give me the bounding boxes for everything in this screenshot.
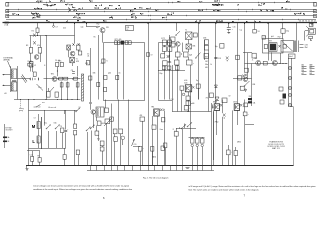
junction dots ground bus [19, 98, 22, 101]
svg-text:+: + [193, 63, 194, 65]
component mid [262, 36, 265, 40]
output transformer T3 [281, 41, 299, 53]
svg-text:C20: C20 [134, 144, 137, 146]
chassis earth rail [26, 165, 294, 167]
capacitor C8 [66, 83, 69, 87]
resistor R6 [76, 83, 79, 87]
wire x293.5 long down [293, 107, 295, 166]
transistor TR2 1st IF [100, 28, 105, 33]
cap on x216 [214, 57, 217, 59]
switch diag [245, 81, 250, 86]
diode D1 on bus [33, 34, 36, 37]
svg-text:698: 698 [253, 84, 256, 86]
svg-text:C18: C18 [218, 58, 221, 60]
electrolytic C21 [234, 151, 238, 156]
svg-text:R9: R9 [37, 156, 39, 158]
horizontal wire y148 [29, 148, 66, 150]
svg-text:TR1: TR1 [51, 74, 55, 76]
switch S1c [76, 111, 77, 112]
supply rail bus 1 [6, 2, 316, 4]
cluster above gang [28, 63, 32, 66]
wire jack join [290, 106, 294, 108]
svg-text:10Vm: 10Vm [233, 102, 238, 104]
svg-text:1k: 1k [210, 64, 212, 66]
resistor R4 on bus [64, 77, 68, 80]
capacitor C1 trimmer [30, 78, 32, 81]
svg-text:20: 20 [299, 21, 301, 23]
box on x237.5 mid [236, 55, 240, 59]
x mark [245, 74, 247, 76]
svg-text:C16: C16 [233, 27, 236, 29]
screen box 2 top edge [159, 42, 173, 44]
wire TR2 emitter down [102, 33, 104, 43]
supply rail bus 3 [6, 11, 316, 13]
jack mid boxes [279, 87, 283, 91]
resistor R1 [33, 72, 36, 76]
right stacked boxes [204, 40, 208, 45]
resistor R9 bottom left [38, 158, 41, 163]
output module box [263, 39, 284, 54]
wire x247.7 [247, 53, 249, 79]
boxes row y75 on IF verticals [104, 76, 107, 80]
box on x164 mid [162, 118, 165, 122]
svg-text:894: 894 [302, 70, 305, 72]
osc box with X [67, 45, 71, 50]
transformer label box [289, 54, 296, 59]
svg-text:10p: 10p [215, 46, 218, 48]
IF transformer IFT1 row on screen top [115, 41, 118, 45]
ground below [244, 89, 247, 91]
secondary earth line [87, 170, 214, 172]
svg-text:335: 335 [93, 73, 96, 75]
plus box below [240, 86, 244, 90]
small box far right [244, 103, 248, 107]
L coil winding [37, 136, 40, 143]
speaker tag box small [309, 24, 313, 27]
TR1 bias chain left boxes [30, 36, 32, 48]
bias resistor R23 [281, 29, 285, 33]
svg-text:L2: L2 [34, 65, 36, 67]
box x176 [174, 132, 178, 137]
label box IF [126, 26, 134, 31]
small box right of T2 [193, 33, 197, 37]
interstage transformer T2 xbox [186, 32, 193, 40]
output transistor TR5 round [272, 61, 277, 66]
small box on x98 [97, 83, 100, 87]
earth symbol right end [311, 23, 314, 25]
svg-text:S1: S1 [79, 107, 81, 109]
module internal box [264, 45, 267, 49]
output transistor TR4 round [256, 61, 261, 66]
svg-text:2.3: 2.3 [264, 37, 266, 39]
x mark 2 [78, 43, 80, 46]
switch legend text block lower [302, 63, 315, 74]
wave change switch S1a [46, 128, 47, 129]
box right of TR3 [196, 84, 200, 88]
svg-text:00m: 00m [58, 61, 62, 63]
junction [57, 70, 58, 71]
svg-text:k7: k7 [314, 21, 316, 23]
driver transistor TR7 dark square [269, 43, 277, 52]
electrolytic C16 with earth [228, 23, 230, 28]
box below TR4 [152, 125, 156, 129]
svg-text:kp3: kp3 [271, 36, 274, 38]
AF wires [152, 116, 154, 125]
IFT2 verticals [164, 45, 166, 46]
fuse FS1 2.5A on HT rail [5, 22, 9, 24]
svg-text:412: 412 [63, 28, 66, 30]
IF transformer IFT2 [162, 40, 166, 45]
svg-text:6V4: 6V4 [102, 123, 105, 125]
transistor TR_d circle [243, 77, 247, 81]
rail tick marks [19, 2, 299, 20]
coil can small dark [29, 62, 33, 68]
junction dots y103 [89, 103, 90, 104]
screening can hatched bar [82, 74, 84, 101]
wire x237.5 from HT [237, 23, 239, 104]
box on x78 low [76, 150, 79, 155]
M coil winding [37, 122, 40, 129]
terminal tag 2 right [314, 10, 317, 13]
x mark right of TR4 [160, 109, 162, 112]
box bottom segment [27, 150, 40, 152]
svg-text:TR2: TR2 [96, 24, 99, 26]
driver transistor TR5 square [214, 104, 219, 111]
wire y128 [176, 128, 196, 130]
svg-text:Fig. 2. The full circuit diag: Fig. 2. The full circuit diagram [143, 176, 169, 179]
dark boxes left x249 [248, 98, 252, 100]
x mark in module [279, 45, 281, 47]
driver low verticals [213, 110, 215, 165]
svg-text:353: 353 [249, 96, 252, 98]
wire from HT x74.5 [74, 23, 76, 36]
marks left [212, 105, 214, 109]
transistor TR3 circle [176, 42, 181, 47]
box on x254.5 [253, 30, 256, 34]
svg-text:C9: C9 [60, 126, 62, 128]
svg-text:0p8: 0p8 [189, 55, 192, 57]
svg-text:C3: C3 [34, 118, 36, 120]
capacitor C12 bottom left [31, 157, 34, 162]
osc box right [76, 45, 80, 50]
svg-text:58: 58 [302, 21, 304, 23]
svg-text:376: 376 [106, 27, 109, 29]
svg-text:R3: R3 [26, 45, 28, 47]
wires module to bus [271, 52, 273, 61]
svg-text:TR4: TR4 [254, 58, 257, 60]
bottom boxes det [175, 60, 180, 65]
small cap C8a [72, 71, 75, 73]
svg-text:69k: 69k [193, 46, 196, 48]
x mark 1 [72, 43, 74, 46]
wire top h y27 [87, 26, 97, 28]
coil former L2 [47, 92, 51, 98]
chassis label text right end of HT rail [299, 21, 316, 23]
resistor R15 [171, 43, 175, 47]
wire y70 horizontal [158, 70, 185, 72]
svg-text:MAT 121: MAT 121 [272, 147, 280, 150]
junction dots chassis rail [28, 165, 29, 166]
diode triangle lower [215, 97, 219, 100]
earth symbol mid [186, 167, 190, 169]
x marks right of TR3 [192, 86, 194, 88]
terminal A [3, 137, 7, 139]
svg-text:TR7: TR7 [269, 41, 272, 43]
wires to chassis left [32, 151, 34, 157]
svg-text:p40: p40 [108, 73, 111, 75]
horizontal wire y110 [29, 110, 78, 112]
svg-text:R2: R2 [32, 31, 34, 33]
box below TR3 [186, 96, 190, 100]
svg-text:conditions at the aerial input: conditions at the aerial input. Where tw… [33, 188, 133, 191]
output transistor TR6 square [234, 104, 239, 111]
svg-text:T2: T2 [185, 30, 187, 32]
aerial socket terminals [3, 74, 6, 76]
volume arrow [132, 139, 135, 146]
svg-text:48V0: 48V0 [237, 142, 241, 144]
earphone jack ladder [288, 58, 291, 107]
vertical x209 from detector [208, 50, 210, 112]
terminal E [3, 141, 7, 143]
coil box with windings [96, 107, 104, 117]
terminal tag 3 right [314, 14, 317, 17]
svg-text:5.p: 5.p [240, 30, 242, 32]
osc vertical wires [46, 36, 48, 100]
vertical x111.5 [111, 104, 113, 166]
svg-text:631: 631 [127, 27, 130, 29]
gang arrow [37, 84, 44, 91]
osc small box [78, 51, 81, 55]
ticks between rails [91, 166, 212, 171]
wire y52.8 right [243, 52, 252, 54]
osc transistor circle [70, 51, 75, 56]
svg-text:74k: 74k [302, 67, 305, 69]
resistor R28 [140, 117, 145, 121]
svg-text:47k: 47k [310, 70, 313, 72]
capacitor C7 on bus [74, 77, 78, 80]
transformer values text [300, 44, 309, 49]
wire x216 from HT down to driver [215, 23, 217, 104]
svg-text:SOCKET: SOCKET [6, 130, 14, 132]
test point symbol [53, 23, 55, 26]
svg-text:C8: C8 [71, 70, 73, 72]
wave change switch S1b [55, 128, 56, 129]
vertical x176 [176, 128, 178, 132]
svg-text:069: 069 [205, 67, 208, 69]
svg-text:+: + [143, 148, 144, 150]
diode mark [242, 75, 245, 78]
terminal tag 1 right [314, 3, 317, 7]
svg-text:in M range and V (k--A.C.) ran: in M range and V (k--A.C.) range. Noise … [189, 185, 316, 188]
second bias box [38, 48, 41, 54]
svg-text:410: 410 [101, 63, 104, 65]
small box on x90 lower [89, 76, 92, 80]
box on x164 low [161, 146, 164, 150]
svg-text:12: 12 [127, 29, 129, 31]
box on x211 pair [210, 93, 214, 98]
box on x111.5 [110, 117, 114, 121]
svg-text:p57: p57 [302, 73, 305, 75]
det cluster wires [182, 43, 184, 52]
svg-text:IFT1 465: IFT1 465 [115, 39, 122, 41]
box right lower [204, 54, 209, 59]
det vertical x190.5 upper [190, 65, 192, 100]
electrolytic C20b [227, 150, 231, 155]
screen box IF stage 1 [104, 43, 145, 101]
svg-text:775: 775 [206, 98, 209, 100]
circle below left [182, 93, 185, 96]
lower cluster x113-126 [113, 129, 117, 134]
diode on x216 [214, 85, 217, 88]
bus wire y35.5 [30, 35, 75, 37]
small box on x148 [146, 53, 149, 56]
svg-text:.01: .01 [87, 56, 89, 58]
resistor R5 [60, 83, 63, 87]
note text block (transistor line-up) [267, 141, 285, 151]
vertical x90.2 [90, 48, 92, 100]
svg-text:76: 76 [305, 21, 307, 23]
lower boxes detector [176, 52, 181, 57]
wires mid low [90, 100, 92, 110]
svg-text:m0p: m0p [286, 31, 289, 33]
svg-text:1pk4: 1pk4 [289, 56, 293, 58]
svg-text:L4 osc coil: L4 osc coil [48, 107, 57, 109]
svg-text:91p: 91p [160, 73, 163, 75]
box x95 [95, 131, 99, 135]
left antenna terminal block [4, 124, 6, 148]
resistor R14 [171, 37, 175, 42]
capacitor pair C6 [56, 62, 59, 66]
supply rail bus 2 [6, 9, 316, 11]
box right of diode [222, 98, 227, 103]
diode D3 cluster [226, 57, 229, 60]
svg-text:47k: 47k [37, 45, 40, 47]
long vertical x244.5 [244, 23, 246, 69]
oscillator cluster right [74, 36, 76, 44]
electrolytic below cluster [184, 106, 188, 110]
supply rail bus 4 [6, 15, 316, 17]
ground bus wire y99.5 [14, 99, 81, 101]
svg-text:osc: osc [42, 102, 45, 104]
AF preamp transistor TR3 square [185, 85, 191, 92]
svg-text:k68: k68 [310, 73, 313, 75]
coil former L3 [55, 92, 58, 97]
loudspeaker LS1 [306, 26, 315, 36]
svg-text:Circuit voltages are shown; po: Circuit voltages are shown; points in-be… [33, 184, 129, 187]
svg-text:R5: R5 [94, 37, 96, 39]
horizontal y125 [245, 124, 254, 126]
capacitor C2 [38, 78, 40, 81]
resistor R10 bottom [63, 155, 66, 160]
svg-text:12p: 12p [81, 27, 84, 29]
terminal tag 1 left [6, 3, 9, 7]
plus box right [243, 112, 247, 116]
wire left vertical from gang [28, 100, 30, 166]
capacitor C10 [64, 130, 67, 132]
M/L verticals [44, 110, 46, 126]
long vertical x148 [148, 23, 150, 166]
wire x268 from HT to output bus [268, 23, 270, 61]
IFT2 small boxes lower [162, 66, 166, 70]
svg-text:01: 01 [119, 73, 121, 75]
AF transistor TR4 square [154, 109, 159, 116]
box under arrow [105, 119, 110, 124]
svg-text:C14: C14 [171, 99, 174, 101]
x mark right [220, 104, 222, 106]
vertical x188 seg [188, 106, 190, 112]
svg-text:gang: gang [19, 110, 23, 112]
box right edge [252, 53, 256, 58]
osc transformer T2 [70, 57, 75, 63]
bias verticals [30, 53, 32, 62]
wires M/L [38, 114, 40, 122]
svg-text:M: M [32, 124, 36, 129]
switch diagonal [176, 31, 180, 35]
svg-text:find. The switch units are rea: find. The switch units are readers and s… [189, 188, 260, 191]
ferrite rod line [41, 117, 43, 149]
small box x103 on screen edge [102, 59, 105, 63]
output bus y63.5 [245, 63, 288, 65]
wire transformer to HT [296, 23, 298, 41]
tuned circuit wire down [17, 66, 19, 100]
svg-text:53: 53 [258, 31, 260, 33]
vertical x251.5 [251, 64, 253, 107]
switch S1e [90, 128, 91, 129]
svg-text:499: 499 [140, 115, 143, 117]
vertical x204.5 [204, 40, 206, 60]
boxes above chassis mid [139, 147, 142, 152]
resistor R2 feed [37, 23, 39, 29]
svg-text:TR4: TR4 [151, 107, 154, 109]
wire x98.3 bias down [98, 35, 100, 100]
svg-text:S1b: S1b [54, 123, 57, 125]
aerial coupling transformer T1 [10, 66, 12, 92]
wire bus y111.5 [172, 111, 212, 113]
wire to RF bus [30, 67, 32, 72]
svg-text:162: 162 [205, 61, 208, 63]
speaker wires [305, 30, 309, 32]
box right of coil [105, 108, 109, 113]
long vertical x199 [198, 23, 200, 100]
cluster connection wires [188, 92, 190, 96]
driver coupling cluster [233, 78, 252, 80]
AGC vertical x172.5 [172, 65, 174, 112]
capacitor C11 [74, 131, 77, 135]
wires trio to rail [192, 147, 194, 166]
svg-text:R__: R__ [173, 129, 176, 131]
IFT1 verticals down [117, 44, 119, 99]
wires to rail [228, 155, 230, 166]
wire from HT x86.5 [86, 23, 88, 28]
gang arrow osc [50, 87, 55, 92]
tuning arrow 2 [104, 118, 112, 126]
svg-text:859: 859 [205, 57, 208, 59]
svg-text:C9: C9 [151, 55, 153, 57]
det boxes [161, 54, 165, 58]
box top x188 [186, 101, 190, 106]
wire x254.5 from HT [254, 23, 256, 30]
svg-text:5k: 5k [308, 21, 310, 23]
osc wires [68, 50, 70, 57]
earth tail left [26, 166, 28, 169]
det vertical x177.7 down [177, 65, 179, 112]
verticals right pair [211, 103, 213, 166]
dashed gang link [20, 100, 22, 109]
variable capacitor C1a tuning gang [21, 75, 27, 84]
vertical x169.5 with dots [169, 35, 171, 62]
svg-text:AERIAL: AERIAL [4, 59, 11, 62]
svg-text:m86: m86 [191, 103, 194, 105]
